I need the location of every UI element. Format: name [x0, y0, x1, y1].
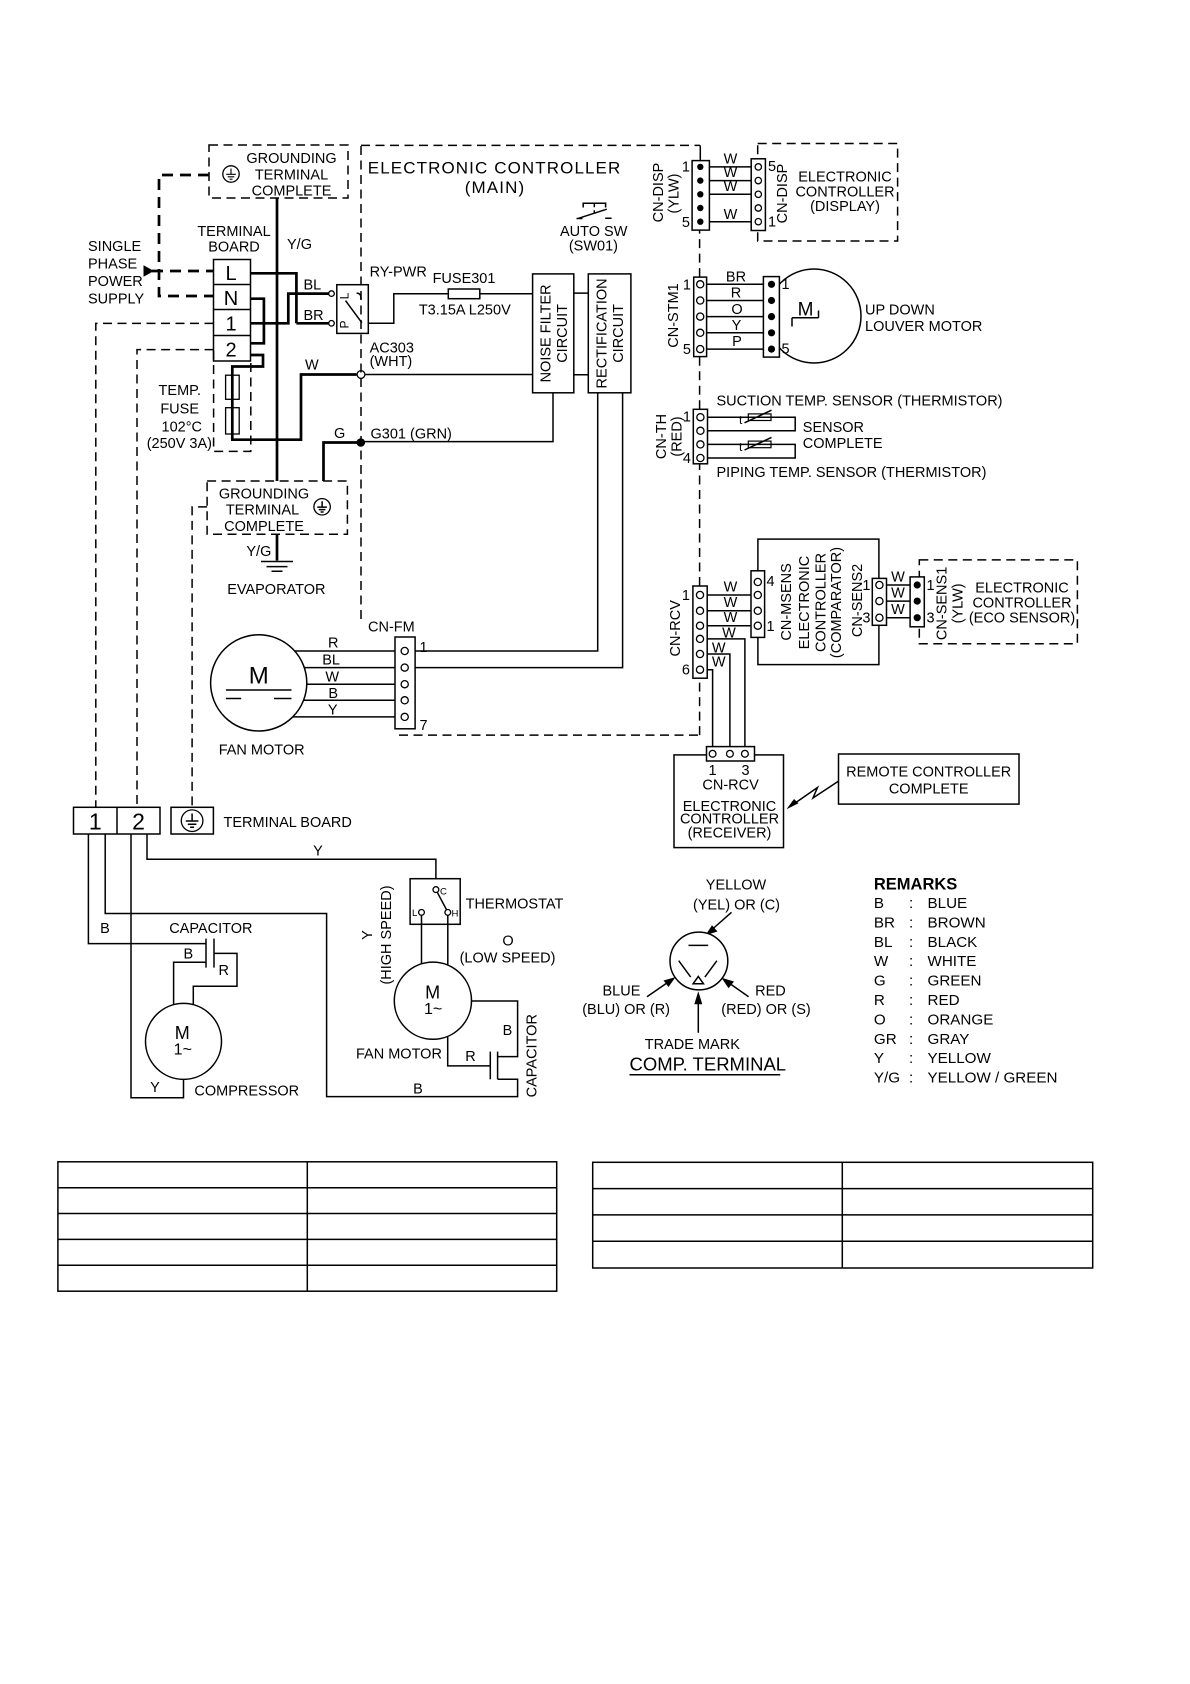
svg-text:EVAPORATOR: EVAPORATOR — [227, 582, 325, 598]
sensor loop 1 — [708, 417, 796, 431]
svg-text:CN-SENS1: CN-SENS1 — [935, 567, 951, 640]
svg-text:W: W — [724, 207, 738, 223]
svg-text:1~: 1~ — [174, 1042, 192, 1059]
svg-text:REMOTE CONTROLLER: REMOTE CONTROLLER — [846, 764, 1011, 780]
svg-text:ELECTRONIC CONTROLLER: ELECTRONIC CONTROLLER — [368, 159, 622, 178]
comp terminal circle — [670, 932, 728, 990]
temp fuse element 2 — [226, 408, 240, 434]
svg-text:CN-RCV: CN-RCV — [702, 778, 759, 794]
svg-text::: : — [909, 1070, 913, 1087]
svg-text:1: 1 — [225, 314, 236, 336]
svg-text:TERMINAL: TERMINAL — [226, 503, 299, 519]
svg-text:(YEL) OR (C): (YEL) OR (C) — [693, 897, 780, 913]
wire relay to FUSE301 to noise filter — [368, 294, 532, 324]
svg-text:B: B — [100, 921, 110, 937]
electronic controller main dashed border — [361, 144, 700, 146]
svg-text:(YLW): (YLW) — [667, 173, 683, 213]
wire capacitor B to compressor — [174, 962, 206, 1005]
svg-text:M: M — [425, 983, 440, 1003]
svg-text:FAN MOTOR: FAN MOTOR — [356, 1047, 442, 1063]
wires noise filter to rectification — [574, 293, 589, 375]
svg-text:TERMINAL: TERMINAL — [197, 224, 270, 240]
svg-text:M: M — [175, 1023, 190, 1043]
svg-text:B: B — [413, 1082, 423, 1098]
terminal board label — [197, 224, 270, 256]
relay RY-PWR — [329, 264, 427, 333]
svg-text:7: 7 — [420, 718, 428, 734]
dashed line terminal 1 to lower board 1 — [96, 323, 214, 807]
svg-text:YELLOW: YELLOW — [706, 878, 767, 894]
svg-text:1: 1 — [683, 278, 691, 294]
svg-text:1: 1 — [420, 640, 428, 656]
grounding terminal complete box (upper) — [209, 145, 348, 199]
svg-text:Y: Y — [360, 930, 376, 940]
svg-text:B: B — [328, 686, 338, 702]
svg-text:L: L — [338, 292, 352, 299]
wire L to relay BR — [251, 273, 329, 323]
wire N to terminal 2 jumper — [251, 299, 264, 344]
svg-text:M: M — [249, 663, 269, 690]
svg-text:COMPLETE: COMPLETE — [252, 183, 332, 199]
dashed outline around temp fuse — [214, 351, 251, 452]
svg-text:GR: GR — [874, 1031, 897, 1048]
svg-text:COMPLETE: COMPLETE — [803, 436, 883, 452]
connector CN-MSENS — [751, 571, 765, 638]
svg-text:BL: BL — [322, 653, 340, 669]
wire AC303 to noise filter — [365, 374, 533, 376]
svg-text:ORANGE: ORANGE — [928, 1011, 994, 1028]
up down louver motor circle — [767, 269, 861, 363]
electronic controller display dashed box — [758, 144, 898, 242]
svg-text:GREEN: GREEN — [928, 973, 982, 990]
svg-text:W: W — [891, 586, 905, 602]
svg-text:B: B — [183, 947, 193, 963]
svg-text:ELECTRONIC: ELECTRONIC — [798, 169, 891, 185]
svg-text:BLUE: BLUE — [928, 895, 968, 912]
svg-text:COMPLETE: COMPLETE — [224, 519, 304, 535]
svg-text:COMP. TERMINAL: COMP. TERMINAL — [630, 1054, 787, 1075]
svg-text:TERMINAL: TERMINAL — [255, 167, 328, 183]
svg-text:RECTIFICATION: RECTIFICATION — [595, 278, 611, 388]
svg-text:CN-MSENS: CN-MSENS — [779, 563, 795, 640]
svg-text:W: W — [724, 595, 738, 611]
wire rectification to CN-FM pin1 — [415, 393, 598, 651]
fan motor circle (indoor) — [211, 635, 307, 731]
svg-text:H: H — [452, 908, 459, 919]
dashed line terminal 2 to lower board 2 — [137, 350, 214, 808]
wires CN-RCV to CN-MSENS — [707, 595, 751, 626]
blue arrow — [647, 982, 668, 997]
thermistor 1 — [739, 410, 772, 427]
svg-text:CN-STM1: CN-STM1 — [666, 283, 682, 347]
svg-text:R: R — [219, 963, 229, 979]
svg-text:(ECO SENSOR): (ECO SENSOR) — [969, 611, 1075, 627]
svg-text:Y/G: Y/G — [246, 544, 271, 560]
svg-text:TEMP.: TEMP. — [159, 383, 201, 399]
svg-text:W: W — [712, 655, 726, 671]
svg-text:UP DOWN: UP DOWN — [865, 303, 935, 319]
svg-text:COMPRESSOR: COMPRESSOR — [194, 1084, 299, 1100]
svg-text:(MAIN): (MAIN) — [465, 178, 525, 197]
wires CN-STM1 to louver motor — [707, 284, 764, 349]
svg-text:R: R — [328, 636, 338, 652]
svg-text:FUSE301: FUSE301 — [433, 271, 496, 287]
svg-text:CN-DISP: CN-DISP — [651, 163, 667, 223]
svg-text:BROWN: BROWN — [928, 914, 986, 931]
svg-text::: : — [909, 1031, 913, 1048]
svg-text:Y: Y — [328, 703, 338, 719]
wires thermostat to fan motor 2 — [422, 915, 448, 965]
svg-text:O: O — [874, 1011, 886, 1028]
temp fuse element 1 — [226, 375, 240, 399]
svg-text:W: W — [305, 358, 319, 374]
svg-text::: : — [909, 895, 913, 912]
zigzag arrow to receiver — [791, 781, 839, 806]
svg-text:BR: BR — [874, 914, 895, 931]
lower board earth box — [171, 807, 213, 834]
svg-text::: : — [909, 1050, 913, 1067]
svg-text:Y: Y — [313, 844, 323, 860]
svg-text:(RECEIVER): (RECEIVER) — [688, 825, 772, 841]
svg-text:B: B — [874, 895, 884, 912]
wires CN-SENS2 to CN-SENS1 — [887, 585, 911, 618]
svg-text:RED: RED — [755, 984, 786, 1000]
svg-text:ELECTRONIC: ELECTRONIC — [975, 581, 1068, 597]
svg-text:P: P — [338, 320, 352, 328]
lower grounding terminal complete box — [207, 481, 347, 535]
svg-text:BR: BR — [304, 308, 324, 324]
svg-text:5: 5 — [683, 342, 691, 358]
svg-text:1: 1 — [767, 619, 775, 635]
svg-text::: : — [909, 1011, 913, 1028]
wire capacitor R to compressor — [193, 953, 237, 1005]
svg-text:(250V 3A): (250V 3A) — [147, 436, 212, 452]
receiver connector — [707, 747, 755, 761]
wire terminal 1 to relay BL — [251, 294, 329, 324]
svg-text::: : — [909, 953, 913, 970]
fuse FUSE301 — [448, 289, 480, 299]
svg-text:ELECTRONIC: ELECTRONIC — [797, 556, 813, 649]
connector CN-RCV — [693, 586, 707, 678]
svg-text:TERMINAL BOARD: TERMINAL BOARD — [224, 815, 352, 831]
svg-text:W: W — [724, 580, 738, 596]
svg-text:(WHT): (WHT) — [370, 354, 413, 370]
AC303 connector circle — [357, 371, 365, 379]
svg-text:SENSOR: SENSOR — [803, 420, 864, 436]
svg-text:R: R — [874, 992, 885, 1009]
connector CN-TH (RED) — [693, 409, 707, 464]
wire rectification to CN-FM pin2 — [415, 393, 622, 668]
svg-text::: : — [909, 914, 913, 931]
wire terminal 2 to temp fuse to AC303 — [232, 355, 356, 440]
wire G301 to noise filter bottom — [365, 393, 553, 442]
dashed line grounding box to lower terminal earth — [192, 507, 207, 807]
ground symbol in upper grounding box — [223, 166, 239, 182]
Y/G label and earth symbol under lower grounding box — [276, 534, 279, 560]
svg-text:N: N — [224, 288, 238, 310]
svg-text:FAN MOTOR: FAN MOTOR — [219, 743, 305, 759]
terminal board (lower) — [74, 807, 161, 834]
svg-text:3: 3 — [927, 611, 935, 627]
svg-text:FUSE: FUSE — [160, 402, 199, 418]
Y/G wire from grounding box down — [276, 198, 279, 481]
svg-text:W: W — [724, 179, 738, 195]
svg-text:CN-TH: CN-TH — [654, 414, 670, 459]
svg-text:RY-PWR: RY-PWR — [370, 264, 427, 280]
wire stub to CN-DISP — [699, 145, 701, 160]
svg-text:RED: RED — [928, 992, 960, 1009]
svg-text:BR: BR — [726, 270, 746, 286]
svg-text:B: B — [503, 1023, 513, 1039]
svg-text:Y/G: Y/G — [874, 1070, 900, 1087]
svg-text:5: 5 — [782, 342, 790, 358]
wires CN-DISP to display connector — [708, 167, 752, 222]
svg-text:GROUNDING: GROUNDING — [219, 487, 309, 503]
connector CN-STM1 — [694, 277, 707, 357]
noise filter circuit box — [533, 274, 574, 393]
svg-text:POWER: POWER — [88, 274, 143, 290]
svg-text:W: W — [325, 669, 339, 685]
svg-text:WHITE: WHITE — [928, 953, 977, 970]
node G301 — [357, 438, 366, 447]
svg-text:G: G — [334, 426, 345, 442]
dashed power wire to L — [152, 270, 214, 273]
svg-text:5: 5 — [682, 215, 690, 231]
svg-text:Y: Y — [874, 1050, 884, 1067]
svg-text:THERMOSTAT: THERMOSTAT — [466, 897, 564, 913]
terminal board L N 1 2 — [214, 260, 251, 362]
svg-text:LOUVER MOTOR: LOUVER MOTOR — [865, 319, 982, 335]
svg-text:L: L — [225, 263, 236, 285]
rectification circuit box — [588, 274, 631, 393]
svg-text:R: R — [465, 1049, 475, 1065]
svg-text:L: L — [412, 908, 417, 919]
wire fan motor 2 B to capacitor — [472, 1001, 518, 1057]
svg-text:(LOW SPEED): (LOW SPEED) — [460, 951, 556, 967]
svg-text:CN-RCV: CN-RCV — [668, 600, 684, 657]
svg-text:O: O — [731, 302, 742, 318]
svg-text:Y: Y — [150, 1080, 160, 1096]
svg-text:CONTROLLER: CONTROLLER — [814, 553, 830, 652]
svg-text:(RED) OR (S): (RED) OR (S) — [721, 1002, 810, 1018]
svg-text:BL: BL — [874, 934, 893, 951]
fan capacitor plates — [490, 1052, 497, 1080]
svg-text:2: 2 — [225, 340, 236, 362]
eco sensor dashed box — [919, 560, 1077, 644]
parts table left — [58, 1162, 557, 1291]
parts table right — [593, 1162, 1093, 1268]
svg-text:1~: 1~ — [424, 1001, 442, 1018]
svg-text:4: 4 — [767, 574, 775, 590]
svg-text:REMARKS: REMARKS — [874, 875, 957, 893]
svg-text:W: W — [891, 570, 905, 586]
wire lower 1 long B to fan capacitor — [105, 834, 517, 1097]
wire lower 2 to compressor Y — [131, 834, 184, 1098]
svg-text:G: G — [874, 973, 886, 990]
thermostat — [410, 879, 460, 925]
svg-text:W: W — [874, 953, 889, 970]
svg-text::: : — [909, 992, 913, 1009]
fan motor 2 circle — [394, 962, 471, 1039]
svg-text:G301 (GRN): G301 (GRN) — [371, 427, 452, 443]
svg-text:W: W — [891, 602, 905, 618]
wire fan motor 2 R to capacitor — [448, 1037, 491, 1066]
svg-text:R: R — [731, 286, 741, 302]
temp fuse label — [147, 383, 212, 452]
svg-text:3: 3 — [862, 611, 870, 627]
svg-text:BOARD: BOARD — [208, 240, 260, 256]
svg-text::: : — [909, 934, 913, 951]
svg-text:1: 1 — [927, 578, 935, 594]
remote controller complete box — [839, 754, 1020, 804]
wire lower 1 to compressor capacitor B — [88, 834, 206, 944]
svg-text:(BLU) OR (R): (BLU) OR (R) — [582, 1002, 670, 1018]
svg-text:SINGLE: SINGLE — [88, 239, 142, 255]
power supply arrow — [144, 265, 155, 276]
connector CN-DISP (display side) — [751, 159, 765, 231]
wires CN-RCV pins 4-6 to receiver — [707, 639, 745, 747]
electronic controller receiver box — [674, 755, 784, 848]
svg-text:COMPLETE: COMPLETE — [889, 781, 969, 797]
svg-text:CAPACITOR: CAPACITOR — [525, 1014, 541, 1097]
wire lower 2 to thermostat Y — [147, 834, 436, 879]
single phase power supply label — [88, 239, 144, 308]
connector CN-SENS1 — [910, 577, 924, 627]
svg-text:2: 2 — [132, 809, 145, 835]
trade mark arrow — [697, 1003, 699, 1033]
svg-text:(HIGH SPEED): (HIGH SPEED) — [379, 885, 395, 984]
svg-text:BLACK: BLACK — [928, 934, 978, 951]
svg-text:SUCTION TEMP. SENSOR (THERMIST: SUCTION TEMP. SENSOR (THERMISTOR) — [717, 394, 1003, 410]
svg-text:O: O — [502, 934, 513, 950]
svg-text:BLUE: BLUE — [603, 984, 641, 1000]
svg-text:GROUNDING: GROUNDING — [246, 151, 336, 167]
connector louver motor side — [763, 277, 779, 358]
svg-text:TRADE MARK: TRADE MARK — [645, 1037, 740, 1053]
svg-text:PHASE: PHASE — [88, 256, 137, 272]
svg-text:(SW01): (SW01) — [569, 239, 618, 255]
svg-text:CONTROLLER: CONTROLLER — [972, 596, 1071, 612]
svg-text:CIRCUIT: CIRCUIT — [611, 304, 627, 363]
svg-text:1: 1 — [89, 809, 102, 835]
svg-text:1: 1 — [682, 160, 690, 176]
svg-text:GRAY: GRAY — [928, 1031, 970, 1048]
svg-text:YELLOW: YELLOW — [928, 1050, 992, 1067]
svg-text:W: W — [722, 626, 736, 642]
svg-text:NOISE FILTER: NOISE FILTER — [539, 284, 555, 382]
svg-text:1: 1 — [782, 277, 790, 293]
yellow arrow — [712, 912, 732, 929]
svg-text:Y: Y — [732, 318, 742, 334]
red arrow — [729, 983, 749, 997]
dashed power wire loop to grounding box and N — [159, 175, 214, 296]
connector CN-DISP (YLW) — [692, 161, 709, 231]
auto switch SW01 symbol — [577, 203, 612, 218]
motor M symbol — [792, 300, 819, 327]
svg-text::: : — [909, 973, 913, 990]
svg-text:Y/G: Y/G — [287, 237, 312, 253]
electronic controller comparator box — [758, 539, 879, 665]
svg-text:C: C — [440, 887, 447, 898]
wire G301 to lower grounding box — [324, 443, 358, 482]
svg-text:T3.15A L250V: T3.15A L250V — [419, 303, 511, 319]
wires fan motor to CN-FM — [293, 651, 395, 717]
svg-text:CN-DISP: CN-DISP — [775, 164, 791, 224]
svg-text:6: 6 — [682, 663, 690, 679]
compressor motor circle — [146, 1003, 222, 1079]
sensor loop 2 — [708, 444, 796, 458]
svg-text:CN-FM: CN-FM — [368, 620, 415, 636]
svg-text:(RED): (RED) — [670, 416, 686, 456]
svg-text:W: W — [724, 610, 738, 626]
svg-text:YELLOW / GREEN: YELLOW / GREEN — [928, 1070, 1058, 1087]
svg-text:PIPING TEMP. SENSOR (THERMISTO: PIPING TEMP. SENSOR (THERMISTOR) — [717, 465, 987, 481]
thermistor 2 — [739, 437, 772, 454]
svg-text:CIRCUIT: CIRCUIT — [555, 304, 571, 363]
svg-text:(COMPARATOR): (COMPARATOR) — [829, 547, 845, 658]
svg-text:P: P — [732, 334, 742, 350]
svg-text:1: 1 — [862, 578, 870, 594]
svg-text:SUPPLY: SUPPLY — [88, 292, 144, 308]
svg-text:(DISPLAY): (DISPLAY) — [810, 199, 880, 215]
svg-text:CAPACITOR: CAPACITOR — [169, 921, 252, 937]
svg-text:BL: BL — [304, 277, 322, 293]
svg-text:(YLW): (YLW) — [951, 583, 967, 623]
svg-text:102°C: 102°C — [162, 420, 202, 436]
connector CN-SENS2 — [872, 578, 886, 625]
